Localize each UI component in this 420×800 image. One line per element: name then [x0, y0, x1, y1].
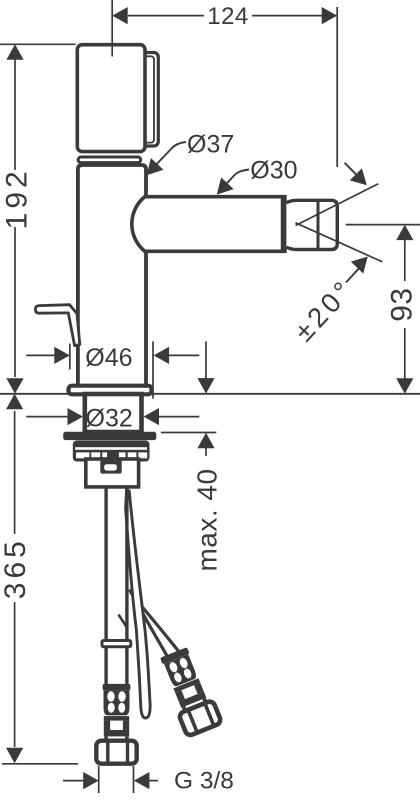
svg-text:192: 192 [0, 167, 33, 229]
dimension 124 [112, 0, 337, 167]
shank rectangle [86, 459, 139, 487]
hose connector (diagonal) [156, 646, 221, 737]
hose connector (vertical) [96, 684, 136, 764]
dimension diameter 32 [26, 416, 199, 418]
svg-text:Ø46: Ø46 [85, 344, 132, 372]
svg-text:Ø37: Ø37 [187, 130, 234, 158]
pop-up rod strip [126, 491, 151, 718]
aerator inner line [317, 200, 320, 249]
center tab (threaded rod) [100, 459, 121, 474]
dimension 93 [346, 225, 420, 387]
svg-text:93: 93 [385, 287, 418, 321]
dimension G 3/8 [63, 766, 158, 793]
dimension 365 [2, 411, 78, 764]
diagonal supply pipe walls [129, 590, 168, 659]
dimension 192 [0, 44, 76, 377]
handle knob (valve cap, right of handle) [140, 53, 158, 147]
nut block white slot [75, 447, 147, 450]
dimension max. 40 [161, 342, 217, 457]
dimension diameter 46 [26, 341, 199, 398]
nut block knurl dashes [76, 452, 147, 458]
leader arrow upper angle [345, 163, 358, 177]
lever handle [35, 305, 79, 346]
centerline segment inside handle [111, 47, 113, 57]
mounting nut block [73, 441, 150, 462]
svg-text:365: 365 [0, 537, 32, 599]
mounting plane line [0, 393, 420, 395]
angle line lower [296, 223, 383, 262]
leader arrow lower angle (plus-minus 20) [346, 269, 359, 283]
handle ring [78, 157, 141, 163]
base plate (escutcheon) [69, 386, 152, 395]
hose collar [102, 641, 131, 647]
diameter-32 shank column [85, 394, 142, 432]
svg-text:Ø32: Ø32 [86, 404, 133, 432]
crossing mark on hose [119, 615, 128, 628]
svg-text:max. 40: max. 40 [191, 468, 222, 571]
vertical hose walls [104, 487, 107, 685]
aerator [286, 200, 337, 249]
handle body [77, 45, 145, 152]
mounting flange bar [63, 432, 156, 440]
svg-text:G 3/8: G 3/8 [174, 767, 234, 794]
spout end wall [281, 199, 286, 250]
svg-text:Ø30: Ø30 [250, 156, 297, 184]
angle line upper [296, 184, 379, 226]
spout body [132, 197, 285, 252]
svg-text:124: 124 [207, 3, 249, 30]
faucet body column [78, 165, 146, 393]
tab hole [104, 464, 117, 470]
